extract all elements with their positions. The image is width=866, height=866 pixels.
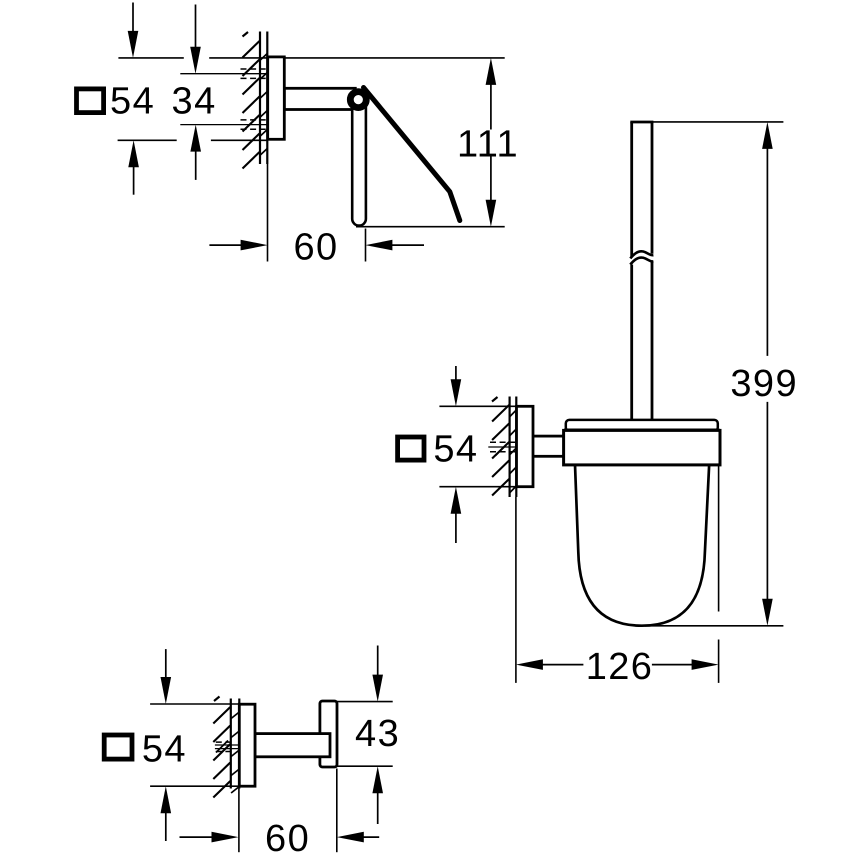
- cover flap diagonal: [364, 88, 460, 221]
- paper holder arm: [284, 88, 355, 109]
- dim 54 top reference line (hook): [150, 703, 240, 705]
- wall thickness tick marks: [231, 712, 239, 793]
- dim 43 arrow up: [377, 791, 379, 824]
- hook head (rounded square): [320, 701, 337, 767]
- wall line (outer): [509, 397, 511, 498]
- break symbol (upper squiggle): [630, 251, 653, 258]
- wall line (outer): [230, 699, 232, 789]
- svg-text:60: 60: [265, 818, 310, 860]
- screw diagonal tick: [496, 443, 509, 456]
- wall thickness tick marks: [510, 410, 516, 493]
- brush handle top reference line (399 datum): [653, 121, 784, 123]
- screw hole hidden line (dashed, upper): [241, 119, 269, 121]
- dimension extension line at wall surface (for 60): [267, 164, 269, 262]
- reference line bottom of flap (111 datum): [356, 226, 505, 228]
- dim 54 bottom reference line (hook): [150, 785, 240, 787]
- extension line under hook head (for 60): [336, 769, 338, 853]
- dim 399 line with arrows: [766, 147, 768, 356]
- brush handle top edge: [630, 121, 653, 124]
- dim 60 arrow (right, pointing left): [362, 836, 379, 838]
- hook wall plate: [239, 704, 255, 786]
- wall line (outer): [259, 32, 261, 165]
- dim 54 arrow down (hook): [165, 649, 167, 679]
- dim 43 top reference line: [337, 701, 393, 703]
- svg-text:54: 54: [433, 429, 478, 471]
- screw centre line (dash-dot): [488, 446, 517, 448]
- reference line bottom of plate (54 datum right segment): [211, 139, 268, 141]
- dim 54 top reference line: [439, 405, 516, 407]
- holder lid: [566, 420, 718, 431]
- screw diagonal tick (hook): [216, 741, 228, 753]
- screw hole hidden line (dashed, lower): [216, 751, 233, 753]
- screw hole hidden line (dashed, lower): [490, 451, 517, 453]
- svg-text:43: 43: [355, 713, 400, 755]
- roll retainer bar (vertical, rounded bottom): [352, 95, 366, 226]
- svg-text:60: 60: [293, 227, 338, 269]
- extension line at wall (for 126): [515, 497, 517, 683]
- wall hatching: [243, 32, 260, 169]
- wall line (inner/mounting surface): [266, 32, 268, 165]
- dim 126 line with arrows: [541, 664, 584, 666]
- dim 60 arrow (right, pointing left): [390, 244, 424, 246]
- brush wall plate: [517, 406, 534, 486]
- extension line right of cup (for 126, lower): [718, 640, 720, 683]
- brush holder arm: [530, 436, 566, 456]
- glass cup: [575, 462, 709, 626]
- dim 60 arrow (left, pointing right): [209, 244, 242, 246]
- dim 111 line with arrows: [490, 83, 492, 130]
- bottom reference line (399 datum): [645, 625, 783, 627]
- reference line top of plate (54 / 111 datum): [209, 57, 505, 59]
- brush handle right edge: [651, 122, 654, 254]
- extension line right of cup (for 126, upper): [718, 466, 720, 612]
- svg-text:126: 126: [586, 646, 654, 688]
- screw centre line (dash-dot): [215, 744, 240, 746]
- brush handle left edge: [630, 122, 633, 257]
- svg-text:399: 399: [730, 363, 798, 405]
- wall hatching: [213, 697, 230, 798]
- dim 43 bottom reference line: [337, 765, 393, 767]
- dim 54 arrow up (brush): [455, 512, 457, 543]
- break symbol (lower squiggle): [630, 258, 653, 265]
- extension line at wall (for 60): [238, 789, 240, 853]
- screw hole hidden line (dashed, upper): [490, 441, 517, 443]
- dim 34 arrow down: [195, 5, 197, 49]
- dim 43 arrow down: [377, 646, 379, 677]
- dim 54 arrow up (hook): [165, 811, 167, 841]
- dim 54 square symbol (brush): [398, 437, 424, 460]
- dim 54 arrow down (brush): [455, 366, 457, 381]
- wall line (inner/mounting surface): [238, 699, 240, 789]
- dim 54 arrow down: [132, 3, 134, 33]
- screw hole hidden line (dashed, lower): [241, 77, 269, 79]
- dim 54 bottom reference line: [439, 486, 516, 488]
- hook arm: [255, 734, 330, 757]
- holder ring body: [564, 430, 720, 465]
- extension line under roll bar: [365, 229, 367, 262]
- svg-text:34: 34: [172, 80, 217, 122]
- dim 60 arrow (left, pointing right): [180, 836, 214, 838]
- lid/ring junction thick band: [564, 429, 720, 433]
- wall line (inner/mounting surface): [515, 397, 517, 498]
- dim 54 arrow up: [133, 165, 135, 194]
- dimension 54 bottom tail line: [118, 139, 177, 141]
- screw hole hidden line (dashed, lower): [241, 128, 269, 130]
- dimension 54 top tail line: [118, 57, 183, 59]
- screw hole hidden line (dashed, upper): [241, 68, 269, 70]
- dim 54 square symbol (hook): [104, 735, 132, 759]
- svg-text:54: 54: [142, 728, 187, 770]
- mounting plate (rosette): [268, 57, 285, 139]
- screw hole hidden line (dashed, upper): [216, 741, 233, 743]
- svg-text:54: 54: [110, 80, 155, 122]
- screw centre line (dash-dot): [180, 124, 268, 126]
- screw centre line (dash-dot): [180, 73, 268, 75]
- dim 54 square symbol: [77, 89, 104, 113]
- pivot ring: [350, 92, 366, 108]
- dim 34 arrow up: [195, 150, 197, 180]
- wall thickness tick marks: [260, 54, 267, 156]
- wall hatching: [492, 397, 509, 496]
- svg-text:111: 111: [457, 123, 519, 165]
